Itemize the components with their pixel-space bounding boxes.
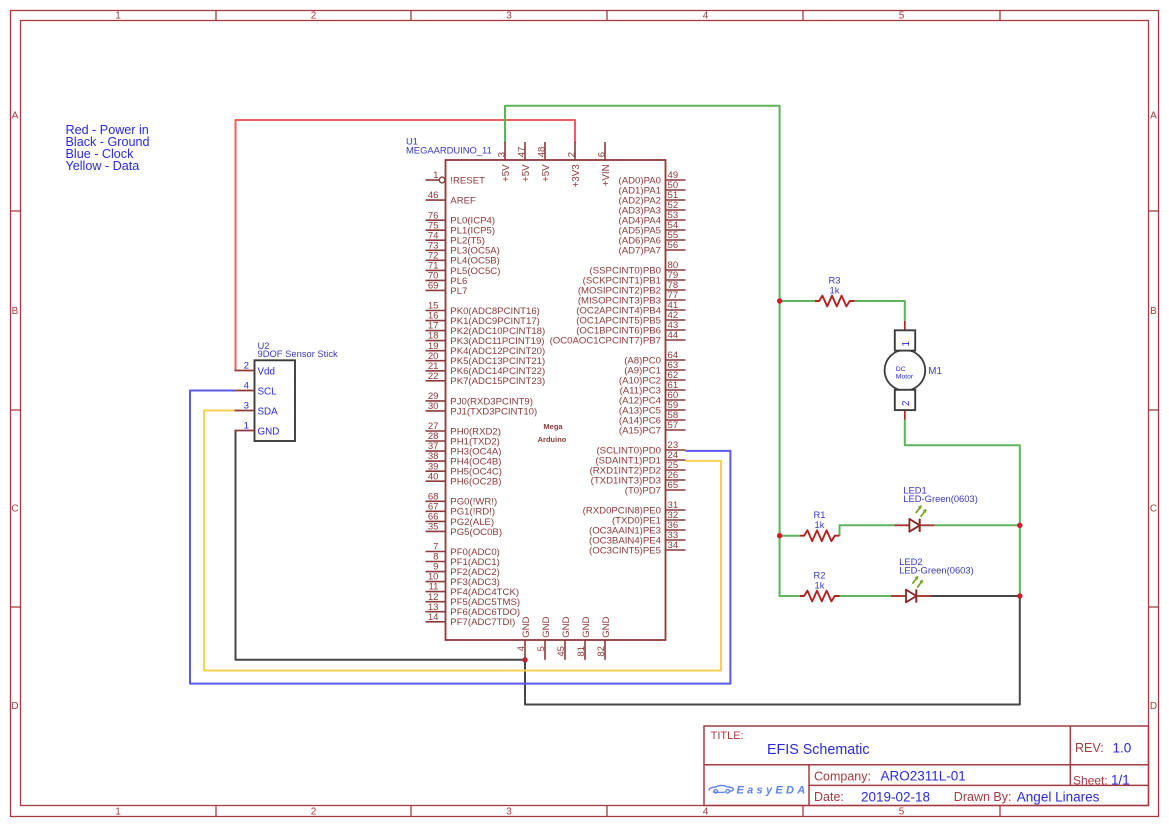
- junction: R3 tap on +5V rail: [777, 298, 782, 303]
- U1 pin 1 !RESET: [426, 170, 486, 186]
- svg-text:3: 3: [496, 152, 507, 157]
- U1 pin 22 PK7(ADC15PCINT23): [426, 371, 546, 387]
- svg-text:2019-02-18: 2019-02-18: [861, 789, 930, 804]
- junction: R1 tap on +5V rail: [777, 533, 782, 538]
- svg-text:82: 82: [596, 646, 607, 657]
- svg-text:65: 65: [668, 480, 679, 491]
- svg-text:GND: GND: [561, 616, 572, 637]
- U1 pin 48 +5V: [536, 142, 552, 182]
- svg-text:D: D: [1150, 701, 1157, 712]
- U1 pin 27 PH0(RXD2): [426, 421, 501, 437]
- svg-text:3: 3: [506, 806, 512, 817]
- wire: green +5V net (U1 pin 3 up and right to left rail): [505, 106, 800, 596]
- U1 pin 21 PK6(ADC14PCINT22): [426, 361, 546, 377]
- svg-text:A: A: [12, 111, 19, 122]
- svg-text:PG5(OC0B): PG5(OC0B): [450, 527, 502, 538]
- U1 pin 16 PK1(ADC9PCINT17): [426, 311, 540, 327]
- svg-text:35: 35: [428, 522, 439, 533]
- svg-text:B: B: [12, 306, 19, 317]
- svg-text:A: A: [1150, 111, 1157, 122]
- svg-text:22: 22: [428, 371, 439, 382]
- svg-text:1: 1: [115, 806, 121, 817]
- svg-text:SDA: SDA: [258, 406, 279, 417]
- svg-text:LED-Green(0603): LED-Green(0603): [903, 493, 978, 504]
- svg-text:ARO2311L-01: ARO2311L-01: [881, 769, 966, 784]
- svg-text:TITLE:: TITLE:: [711, 730, 744, 742]
- svg-text:+5V: +5V: [541, 164, 552, 182]
- svg-text:PL7: PL7: [450, 286, 467, 297]
- svg-text:3: 3: [244, 401, 249, 412]
- svg-text:57: 57: [668, 420, 679, 431]
- motor designator M1: [928, 366, 942, 377]
- U1 pin 71 PL5(OC5C): [426, 261, 501, 277]
- svg-text:Yellow - Data: Yellow - Data: [66, 159, 140, 173]
- junction: LED1 cathode / right rail: [1017, 523, 1022, 528]
- U1 pin 58 (A14)PC6: [619, 410, 686, 426]
- wire: green branch to R3: [780, 300, 815, 302]
- svg-text:+VIN: +VIN: [601, 164, 612, 186]
- U1 pin 51 (AD2)PA2: [619, 190, 686, 206]
- svg-text:1: 1: [433, 170, 438, 181]
- svg-text:M1: M1: [928, 366, 942, 377]
- IC U2 9DOF Sensor Stick body: [255, 360, 296, 441]
- svg-text:C: C: [11, 504, 18, 515]
- U1 pin 4 GND: [516, 616, 532, 659]
- U1 pin 43 (OC1BPCINT6)PB6: [576, 320, 685, 336]
- U1 pin 50 (AD1)PA1: [619, 180, 686, 196]
- svg-text:!RESET: !RESET: [450, 175, 485, 186]
- U1 pin 77 (MISOPCINT3)PB3: [578, 290, 686, 306]
- svg-text:Vdd: Vdd: [258, 366, 275, 377]
- svg-text:LED-Green(0603): LED-Green(0603): [899, 564, 974, 575]
- U1 pin 45 GND: [556, 616, 572, 659]
- U1 pin 65 (T0)PD7: [625, 480, 686, 496]
- svg-text:C: C: [1150, 504, 1157, 515]
- svg-text:+3V3: +3V3: [571, 164, 582, 188]
- svg-text:PH6(OC2B): PH6(OC2B): [450, 477, 501, 488]
- svg-text:69: 69: [428, 281, 439, 292]
- U1 pin 28 PH1(TXD2): [426, 431, 500, 447]
- U1 pin 7 PF0(ADC0): [426, 542, 500, 558]
- U1 pin 35 PG5(OC0B): [426, 522, 503, 538]
- svg-text:GND: GND: [581, 616, 592, 637]
- U1 pin 31 (RXD0PCIN8)PE0: [583, 500, 686, 516]
- svg-text:Arduino: Arduino: [538, 435, 567, 444]
- IC U1 MEGAARDUINO_11 body: [446, 160, 666, 640]
- U1 pin 23 (SCLINT0)PD0: [596, 440, 685, 456]
- title text REV: 1.0: [1075, 740, 1131, 755]
- svg-text:1: 1: [244, 421, 249, 432]
- svg-text:Motor: Motor: [896, 373, 914, 380]
- U1 pin 56 (AD7)PA7: [619, 240, 686, 256]
- resistor R3 1k: [815, 274, 855, 306]
- wire: blue clock net U2 SCL to U1 PD0 pin 23: [190, 391, 730, 684]
- U1 pin 57 (A15)PC7: [619, 420, 686, 436]
- svg-text:47: 47: [516, 147, 527, 158]
- svg-text:2: 2: [311, 806, 317, 817]
- svg-text:1: 1: [115, 10, 121, 21]
- svg-text:REV:: REV:: [1075, 741, 1104, 755]
- svg-text:1/1: 1/1: [1111, 773, 1130, 788]
- resistor R1 1k: [800, 509, 840, 541]
- svg-text:56: 56: [668, 240, 679, 251]
- svg-text:2: 2: [244, 361, 249, 372]
- U1 pin 76 PL0(ICP4): [426, 210, 496, 226]
- U1 pin 68 PG0(!WR!): [426, 491, 498, 507]
- svg-text:5: 5: [536, 646, 547, 651]
- U1 pin 25 (RXD1INT2)PD2: [590, 460, 686, 476]
- wire: yellow data net U2 SDA to U1 PD1 pin 24: [204, 411, 721, 671]
- title text Sheet: 1/1: [1073, 773, 1130, 788]
- U1 pin 19 PK4(ADC12PCINT20): [426, 341, 546, 357]
- U1 pin 5 GND: [536, 616, 552, 659]
- svg-text:46: 46: [428, 190, 439, 201]
- junction: U1 GND pin 4 / ground wire: [522, 657, 527, 662]
- U1 pin 34 (OC3CINT5)PE5: [589, 540, 685, 556]
- svg-text:6: 6: [596, 152, 607, 157]
- wire: green motor M1 pin 2 down to right rail: [905, 420, 1020, 597]
- wire: green R1 to LED1 anode: [840, 525, 895, 535]
- LED LED2 LED-Green(0603): [891, 556, 974, 603]
- svg-text:45: 45: [556, 646, 567, 657]
- svg-text:Drawn By:: Drawn By:: [954, 790, 1012, 804]
- svg-text:4: 4: [244, 381, 250, 392]
- U1 pin 14 PF7(ADC7TDI): [426, 612, 516, 628]
- U1 pin 78 (MOSIPCINT2)PB2: [578, 280, 686, 296]
- U1 pin 74 PL2(T5): [426, 230, 485, 246]
- U1 pin 61 (A11)PC3: [620, 380, 686, 396]
- DC motor M1: [885, 321, 926, 420]
- svg-text:PF7(ADC7TDI): PF7(ADC7TDI): [450, 617, 515, 628]
- svg-text:1: 1: [901, 341, 912, 346]
- U1 pin 9 PF2(ADC2): [426, 562, 500, 578]
- svg-text:3: 3: [506, 10, 512, 21]
- text note: wire colour legend: [66, 123, 150, 173]
- U1 pin 81 GND: [576, 616, 592, 659]
- svg-text:DC: DC: [896, 366, 906, 373]
- svg-text:Date:: Date:: [814, 790, 844, 804]
- svg-text:1k: 1k: [830, 284, 840, 295]
- U1 pin 72 PL4(OC5B): [426, 250, 500, 266]
- svg-text:GND: GND: [541, 616, 552, 637]
- U1 pin 75 PL1(ICP5): [426, 220, 496, 236]
- U1 pin 54 (AD5)PA5: [619, 220, 686, 236]
- U1 pin 46 AREF: [426, 190, 477, 206]
- U1 pin 29 PJ0(RXD3PCINT9): [426, 391, 533, 407]
- U2 pin 1 GND: [235, 421, 280, 438]
- wire: black ground net bottom run to LED2 cathode rail: [525, 596, 1020, 705]
- U1 pin 67 PG1(!RD!): [426, 501, 496, 517]
- U1 pin 66 PG2(ALE): [426, 512, 495, 528]
- svg-text:+5V: +5V: [501, 164, 512, 182]
- U1 pin 11 PF4(ADC4TCK): [426, 582, 520, 598]
- U1 designator label: [406, 136, 492, 156]
- svg-text:GND: GND: [601, 616, 612, 637]
- U2 pin 3 SDA: [235, 401, 279, 418]
- svg-text:9DOF Sensor Stick: 9DOF Sensor Stick: [258, 348, 339, 359]
- U1 pin 59 (A13)PC5: [619, 400, 686, 416]
- U1 pin 8 PF1(ADC1): [426, 552, 500, 568]
- svg-text:B: B: [1150, 306, 1157, 317]
- U1 pin 82 GND: [596, 616, 612, 659]
- svg-text:SCL: SCL: [258, 386, 278, 397]
- svg-text:GND: GND: [258, 426, 280, 437]
- svg-text:AREF: AREF: [450, 196, 476, 207]
- U1 pin 44 (OC0AOC1CPCINT7)PB7: [550, 330, 686, 346]
- title text Date: 2019-02-18 Drawn By: Angel Linares: [814, 789, 1100, 804]
- U1 pin 32 (TXD0)PE1: [612, 510, 686, 526]
- U1 pin 33 (OC3BAIN4)PE4: [589, 530, 685, 546]
- U2 pin 4 SCL: [235, 381, 278, 398]
- svg-text:Company:: Company:: [814, 769, 871, 783]
- U1 pin 15 PK0(ADC8PCINT16): [426, 301, 540, 317]
- U1 pin 53 (AD4)PA4: [619, 210, 686, 226]
- svg-text:4: 4: [516, 645, 527, 651]
- U1 pin 55 (AD6)PA6: [619, 230, 686, 246]
- U1 pin 69 PL7: [426, 281, 468, 297]
- svg-text:1.0: 1.0: [1113, 740, 1132, 755]
- svg-text:(AD7)PA7: (AD7)PA7: [619, 245, 661, 256]
- U1 pin 17 PK2(ADC10PCINT18): [426, 321, 546, 337]
- svg-text:EasyEDA: EasyEDA: [737, 784, 809, 796]
- svg-text:(T0)PD7: (T0)PD7: [625, 485, 661, 496]
- svg-text:2: 2: [311, 10, 317, 21]
- svg-text:D: D: [11, 701, 18, 712]
- wire: black LED2 cathode to ground rail: [929, 595, 1020, 597]
- svg-text:4: 4: [703, 806, 709, 817]
- svg-text:PJ1(TXD3PCINT10): PJ1(TXD3PCINT10): [450, 406, 537, 417]
- svg-text:2: 2: [901, 401, 912, 406]
- U1 pin 62 (A10)PC2: [619, 370, 686, 386]
- junction: LED2 cathode / ground rail: [1017, 593, 1022, 598]
- wire: green R3 to motor M1 pin 1: [855, 301, 905, 321]
- U1 pin 70 PL6: [426, 271, 468, 287]
- resistor R2 1k: [800, 569, 840, 601]
- title text Company: ARO2311L-01: [814, 769, 966, 784]
- svg-text:(OC3CINT5)PE5: (OC3CINT5)PE5: [589, 545, 661, 556]
- U1 pin 52 (AD3)PA3: [619, 200, 686, 216]
- title text TITLE: EFIS Schematic: [711, 730, 870, 758]
- U1 pin 42 (OC1APCINT5)PB5: [576, 310, 685, 326]
- U1 pin 60 (A12)PC4: [619, 390, 686, 406]
- U1 pin 37 PH3(OC4A): [426, 441, 502, 457]
- wire: green LED1 cathode to right rail junction: [935, 524, 1020, 526]
- wire: green branch to R1: [780, 535, 800, 537]
- svg-text:1k: 1k: [815, 519, 825, 530]
- title block: [704, 726, 1149, 806]
- svg-text:40: 40: [428, 471, 439, 482]
- svg-text:+5V: +5V: [521, 164, 532, 182]
- LED LED1 LED-Green(0603): [894, 485, 977, 532]
- svg-text:Angel Linares: Angel Linares: [1017, 789, 1100, 804]
- wire: red +3V3 power net (U2 Vdd to U1 +3V3 pin 2): [236, 120, 576, 371]
- U1 pin 41 (OC2APCINT4)PB4: [576, 300, 685, 316]
- svg-text:(A15)PC7: (A15)PC7: [619, 425, 661, 436]
- U1 internal label Mega Arduino: [538, 422, 567, 444]
- svg-text:48: 48: [536, 147, 547, 158]
- svg-text:Sheet:: Sheet:: [1073, 773, 1108, 787]
- U1 pin 30 PJ1(TXD3PCINT10): [426, 401, 538, 417]
- svg-text:PK7(ADC15PCINT23): PK7(ADC15PCINT23): [450, 376, 545, 387]
- svg-text:(OC0AOC1CPCINT7)PB7: (OC0AOC1CPCINT7)PB7: [550, 335, 661, 346]
- U1 pin 10 PF3(ADC3): [426, 572, 500, 588]
- U1 pin 40 PH6(OC2B): [426, 471, 502, 487]
- svg-text:34: 34: [668, 540, 679, 551]
- wire: green R2 to LED2 anode: [840, 595, 892, 597]
- svg-text:Mega: Mega: [543, 422, 563, 431]
- U1 pin 64 (A8)PC0: [624, 350, 685, 366]
- svg-text:44: 44: [668, 330, 679, 341]
- U2 designator label: [258, 340, 339, 359]
- svg-text:4: 4: [703, 10, 709, 21]
- U1 pin 38 PH4(OC4B): [426, 451, 502, 467]
- U1 pin 47 +5V: [516, 142, 532, 182]
- svg-text:30: 30: [428, 401, 439, 412]
- svg-text:14: 14: [428, 612, 439, 623]
- U1 pin 49 (AD0)PA0: [619, 170, 686, 186]
- svg-text:5: 5: [899, 10, 905, 21]
- U1 pin 24 (SDAINT1)PD1: [595, 450, 685, 466]
- svg-text:2: 2: [566, 152, 577, 157]
- svg-text:5: 5: [899, 806, 905, 817]
- U1 pin 13 PF6(ADC6TDO): [426, 602, 521, 618]
- U1 pin 79 (SCKPCINT1)PB1: [583, 270, 686, 286]
- svg-text:EFIS Schematic: EFIS Schematic: [767, 742, 870, 758]
- U1 pin 36 (OC3AAIN1)PE3: [589, 520, 685, 536]
- U1 pin 20 PK5(ADC13PCINT21): [426, 351, 546, 367]
- U1 pin 80 (SSPCINT0)PB0: [590, 260, 686, 276]
- U1 pin 18 PK3(ADC11PCINT19): [426, 331, 545, 347]
- U1 pin 6 +VIN: [596, 142, 612, 186]
- svg-text:MEGAARDUINO_11: MEGAARDUINO_11: [406, 144, 492, 155]
- U1 pin 12 PF5(ADC5TMS): [426, 592, 521, 608]
- U2 pin 2 Vdd: [235, 361, 275, 378]
- wire: black ground net U2 GND down to U1 GND pin 4: [236, 431, 526, 660]
- U1 pin 73 PL3(OC5A): [426, 240, 500, 256]
- svg-text:GND: GND: [521, 616, 532, 637]
- U1 pin 2 +3V3: [566, 142, 582, 187]
- svg-text:1k: 1k: [815, 580, 825, 591]
- EasyEDA logo: [709, 784, 808, 796]
- U1 pin 63 (A9)PC1: [624, 360, 685, 376]
- svg-text:81: 81: [576, 646, 587, 657]
- U1 pin 39 PH5(OC4C): [426, 461, 503, 477]
- U1 pin 26 (TXD1INT3)PD3: [591, 470, 686, 486]
- U1 pin 3 +5V: [496, 142, 512, 182]
